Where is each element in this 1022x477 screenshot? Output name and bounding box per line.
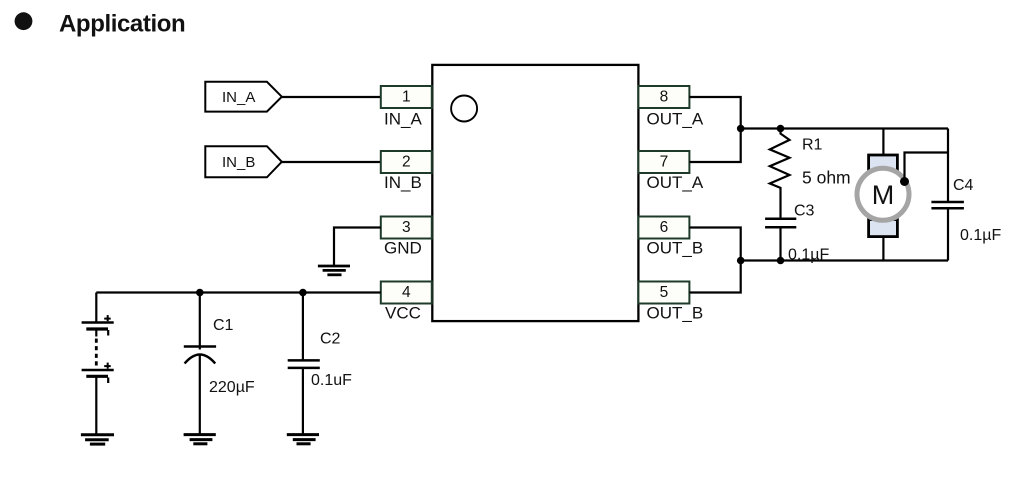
wire pin 3 to ground [334, 228, 381, 267]
node motor brush [900, 177, 909, 186]
svg-text:Application: Application [59, 11, 185, 38]
svg-text:OUT_A: OUT_A [647, 173, 704, 192]
wire brush to C4 [905, 153, 949, 182]
connector IN_B [205, 146, 281, 177]
ground at C2 [287, 435, 319, 444]
svg-text:0.1µF: 0.1µF [788, 247, 829, 264]
svg-text:IN_A: IN_A [384, 110, 422, 129]
ground at pin 3 [318, 266, 350, 275]
connector IN_A [205, 82, 281, 112]
svg-text:OUT_B: OUT_B [647, 239, 704, 258]
op-amp U1 IC body [432, 65, 638, 321]
wire pin 8 to node [689, 97, 740, 162]
svg-text:R1: R1 [802, 137, 823, 154]
section bullet [15, 12, 33, 30]
svg-text:5: 5 [660, 284, 669, 301]
svg-text:M: M [872, 180, 895, 210]
svg-text:C1: C1 [213, 317, 234, 334]
svg-text:6: 6 [660, 219, 669, 236]
battery BT1 [82, 293, 114, 435]
svg-text:220µF: 220µF [209, 379, 255, 396]
svg-text:IN_A: IN_A [222, 89, 255, 106]
motor M1 [857, 155, 909, 237]
svg-text:OUT_B: OUT_B [647, 304, 704, 323]
capacitor C2 [288, 293, 320, 435]
ground at battery [81, 435, 114, 444]
svg-text:1: 1 [402, 88, 411, 105]
svg-text:7: 7 [660, 153, 669, 170]
capacitor C1 [184, 293, 216, 435]
svg-text:2: 2 [402, 153, 411, 170]
node C3 bottom junction [777, 257, 785, 265]
pin 3 box [381, 217, 432, 239]
pin 5 box [638, 282, 689, 304]
ground at C1 [184, 435, 216, 444]
pin 1 box [381, 86, 432, 108]
svg-text:C3: C3 [794, 203, 815, 220]
node C1 junction [196, 289, 204, 297]
wire motor bottom [882, 237, 884, 261]
pin-1 marker circle [451, 96, 477, 122]
wire VCC rail battery to pin 4 [96, 291, 381, 293]
node C2 junction [299, 289, 307, 297]
pin 4 box [381, 282, 432, 304]
svg-text:3: 3 [402, 219, 411, 236]
svg-text:IN_B: IN_B [384, 173, 422, 192]
wire OUT_B bottom bus [741, 259, 948, 261]
svg-text:C4: C4 [953, 177, 974, 194]
capacitor C4 [931, 129, 964, 261]
pin 6 box [638, 217, 689, 239]
wire IN_A to pin 1 [282, 96, 381, 98]
pin 8 box [638, 86, 689, 108]
wire motor top [882, 129, 884, 159]
svg-text:IN_B: IN_B [222, 154, 255, 171]
wire OUT_A top bus [741, 127, 948, 129]
pin 7 box [638, 151, 689, 173]
resistor R1 [770, 129, 790, 219]
node OUT_B junction [737, 257, 745, 265]
capacitor C3 [765, 219, 796, 261]
pin 2 box [381, 151, 432, 173]
svg-text:VCC: VCC [385, 304, 421, 323]
svg-text:GND: GND [384, 239, 422, 258]
node OUT_A junction [737, 125, 745, 133]
node R1 top junction [777, 125, 785, 133]
svg-text:4: 4 [402, 284, 411, 301]
svg-text:OUT_A: OUT_A [647, 110, 704, 129]
wire pin 6 to node [689, 228, 740, 293]
svg-text:8: 8 [660, 88, 669, 105]
svg-text:0.1uF: 0.1uF [311, 372, 352, 389]
wire IN_B to pin 2 [282, 161, 381, 163]
svg-text:C2: C2 [320, 331, 341, 348]
svg-text:5 ohm: 5 ohm [802, 168, 851, 188]
svg-text:0.1µF: 0.1µF [960, 227, 1001, 244]
